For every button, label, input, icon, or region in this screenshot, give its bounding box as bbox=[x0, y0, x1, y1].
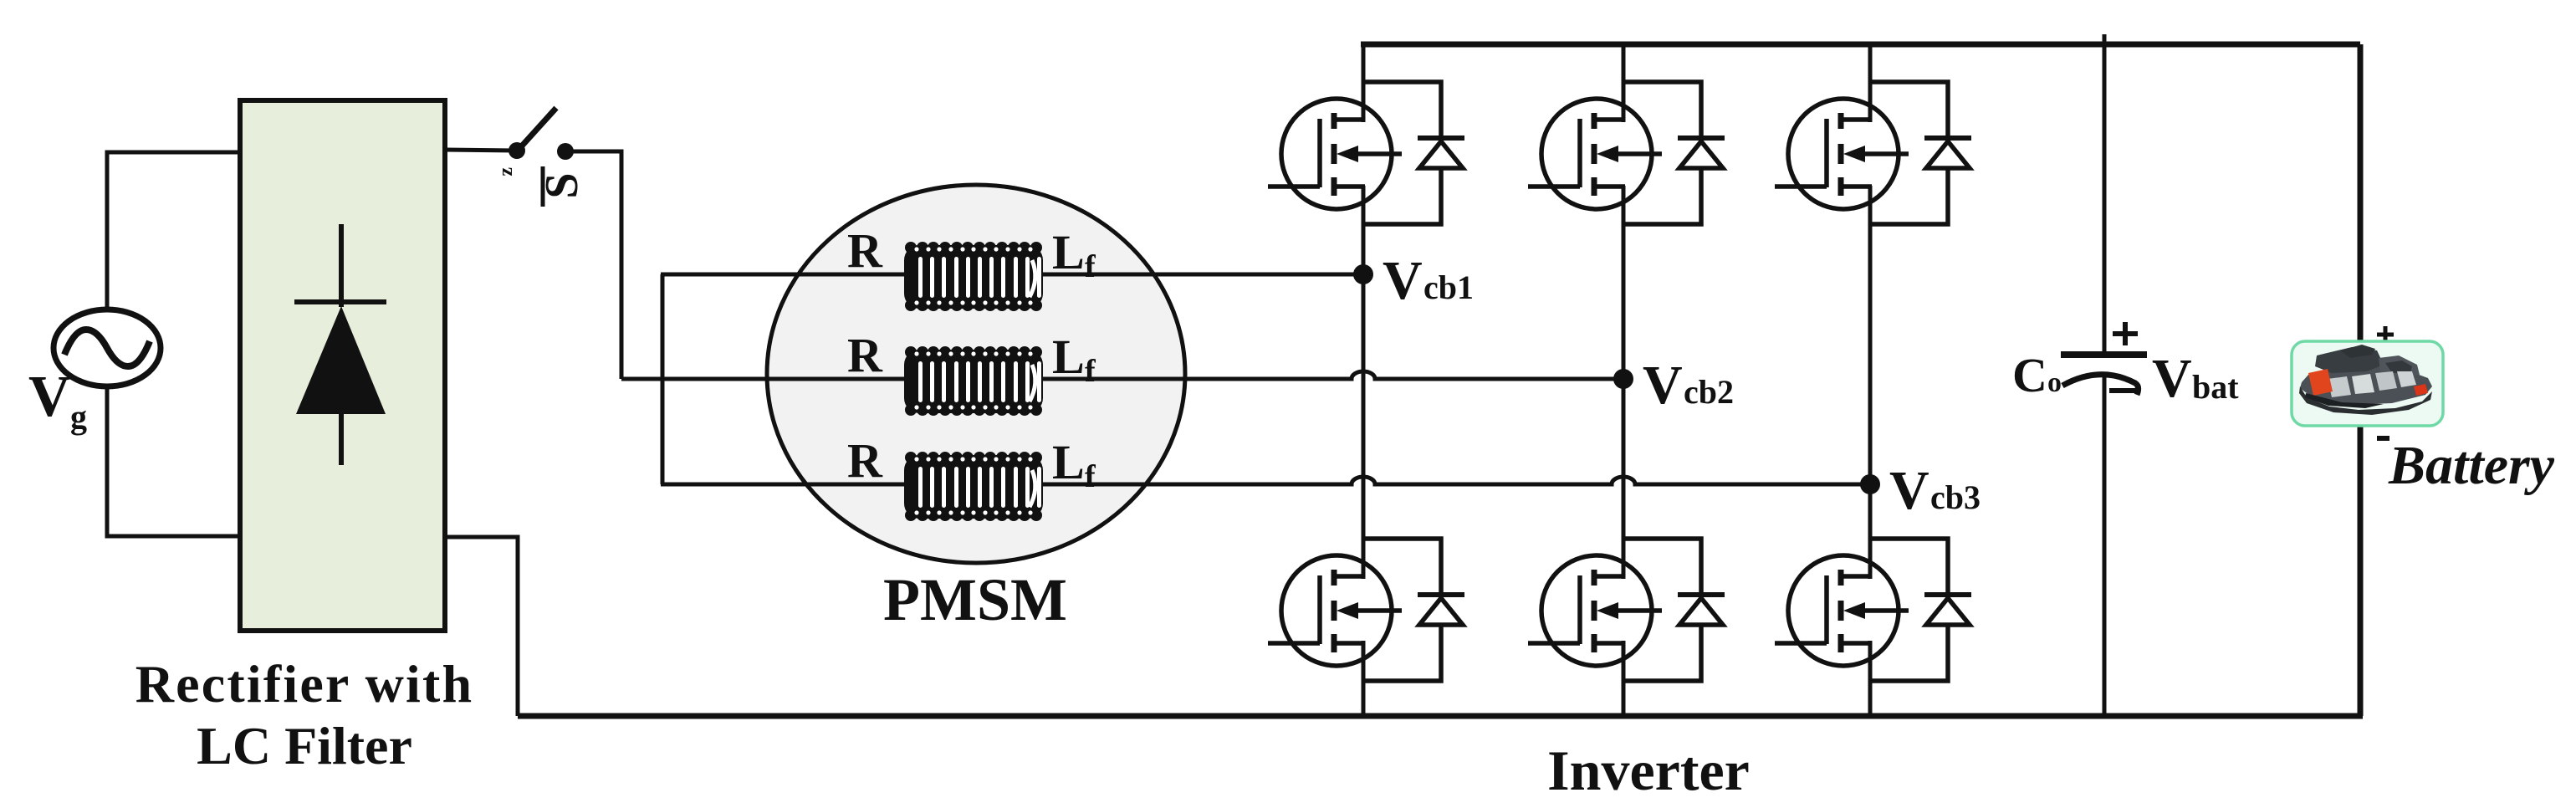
svg-text:cb1: cb1 bbox=[1423, 268, 1474, 306]
transistor Q1 bbox=[1268, 99, 1402, 209]
svg-text:V: V bbox=[1889, 460, 1929, 521]
wire box to switch bbox=[445, 150, 515, 151]
wire leg 3 lower bbox=[1868, 641, 1873, 716]
transistor Q4 bbox=[1528, 555, 1662, 666]
wire phase bracket vertical bbox=[661, 274, 665, 484]
wire battery bottom lead bbox=[2358, 423, 2364, 716]
svg-text:V: V bbox=[1383, 250, 1423, 311]
svg-text:V: V bbox=[28, 365, 71, 429]
wire leg 3 upper bbox=[1868, 44, 1873, 122]
switch label S bbox=[536, 172, 588, 198]
wire capacitor bottom lead bbox=[2103, 374, 2107, 716]
transistor Q2 bbox=[1268, 555, 1402, 666]
inductor Lf3 coil bbox=[904, 452, 1043, 521]
diode D6 (antiparallel) bbox=[1870, 539, 1971, 681]
svg-text:Inverter: Inverter bbox=[1547, 739, 1750, 802]
diode D5 (antiparallel) bbox=[1870, 82, 1971, 224]
diode D3 (antiparallel) bbox=[1623, 82, 1725, 224]
inductor Lf2 coil bbox=[904, 346, 1043, 416]
rectifier box bbox=[240, 100, 445, 631]
svg-text:V: V bbox=[2152, 348, 2192, 409]
diode inside rectifier bbox=[294, 224, 386, 465]
svg-text:R: R bbox=[847, 433, 883, 488]
wire phase C line (hops over legs 1 and 2) bbox=[661, 477, 1870, 484]
transistor Q5 bbox=[1775, 99, 1909, 209]
wire switch to PMSM bbox=[565, 151, 621, 379]
node Vcb3 bbox=[1860, 474, 1880, 494]
wire top DC rail bbox=[1361, 42, 2360, 48]
wire bottom DC rail bbox=[518, 713, 2363, 719]
battery pack image bbox=[2299, 345, 2432, 415]
wire rectifier bottom to rail bbox=[445, 537, 518, 716]
wire capacitor top lead bbox=[2103, 44, 2107, 353]
wire leg 1 upper bbox=[1362, 44, 1366, 122]
diode D4 (antiparallel) bbox=[1623, 539, 1725, 681]
capacitor Co curved plate bbox=[2062, 375, 2139, 395]
svg-text:f: f bbox=[1085, 459, 1096, 494]
capacitor Co top plate bbox=[2061, 351, 2147, 358]
svg-text:o: o bbox=[2047, 367, 2062, 398]
transistor Q3 bbox=[1528, 99, 1662, 209]
PMSM stator ellipse bbox=[767, 185, 1185, 563]
AC source Vg bbox=[54, 309, 161, 386]
svg-text:L: L bbox=[1052, 330, 1085, 384]
junction nub above rail at capacitor bbox=[2103, 34, 2107, 50]
switch pole dot bbox=[509, 142, 525, 159]
transistor Q6 bbox=[1775, 555, 1909, 666]
battery minus sign bbox=[2377, 436, 2389, 441]
wire leg 1 middle bbox=[1362, 186, 1366, 579]
wire leg 3 middle bbox=[1868, 186, 1873, 579]
wire phase A line bbox=[661, 273, 1363, 277]
svg-text:bat: bat bbox=[2192, 368, 2239, 406]
svg-text:R: R bbox=[847, 328, 883, 382]
svg-text:LC Filter: LC Filter bbox=[197, 716, 412, 775]
svg-text:Rectifier with: Rectifier with bbox=[135, 654, 474, 713]
capacitor plus sign bbox=[2113, 322, 2138, 345]
svg-text:f: f bbox=[1085, 249, 1096, 284]
svg-text:C: C bbox=[2012, 348, 2047, 402]
svg-text:V: V bbox=[1643, 355, 1683, 416]
svg-text:PMSM: PMSM bbox=[883, 566, 1067, 633]
svg-text:R: R bbox=[847, 223, 883, 278]
wire leg 2 upper bbox=[1622, 44, 1626, 122]
node Vcb2 bbox=[1613, 369, 1633, 389]
svg-text:f: f bbox=[1085, 354, 1096, 389]
battery icon box bbox=[2292, 341, 2443, 426]
wire Vg top lead bbox=[107, 152, 240, 310]
diode D2 (antiparallel) bbox=[1363, 539, 1464, 681]
battery plus sign bbox=[2377, 326, 2394, 343]
svg-text:L: L bbox=[1052, 435, 1085, 489]
wire battery top lead bbox=[2358, 44, 2364, 345]
switch S blade bbox=[517, 108, 556, 151]
node Vcb1 bbox=[1353, 264, 1373, 284]
diode D1 (antiparallel) bbox=[1363, 82, 1464, 224]
wire leg 2 middle bbox=[1622, 186, 1626, 579]
svg-text:cb3: cb3 bbox=[1930, 478, 1981, 516]
svg-text:Battery: Battery bbox=[2388, 435, 2555, 496]
wire leg 2 lower bbox=[1622, 641, 1626, 716]
svg-text:cb2: cb2 bbox=[1684, 373, 1734, 411]
svg-text:z: z bbox=[495, 167, 517, 176]
wire leg 1 lower bbox=[1362, 641, 1366, 716]
switch throw dot bbox=[557, 143, 574, 160]
svg-text:g: g bbox=[70, 398, 87, 436]
svg-text:L: L bbox=[1052, 225, 1085, 279]
inductor Lf1 coil bbox=[904, 242, 1043, 311]
wire phase B line (hop over leg 1) bbox=[621, 371, 1623, 379]
wire Vg bottom lead bbox=[107, 386, 240, 536]
